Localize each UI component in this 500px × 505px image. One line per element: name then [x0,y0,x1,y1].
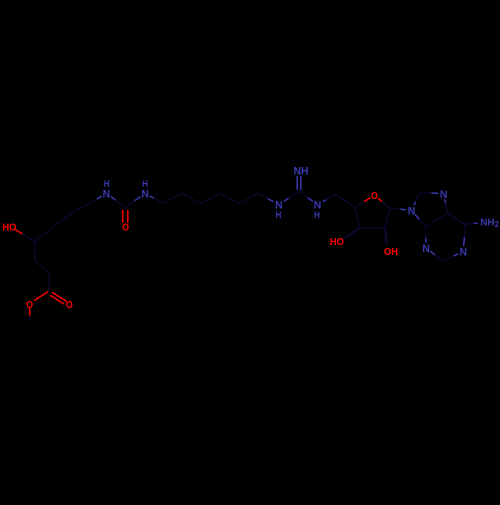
atom N1' urea label [103,188,111,200]
bond O(H)-C7 hydroxyl [15,230,23,235]
double bond C=O ester [53,293,67,302]
bond N-C guanidine [284,198,289,201]
atom O urea carbonyl label [122,222,129,234]
svg-text:N: N [141,188,149,200]
atom O ester carbonyl label [66,299,73,311]
atom N3 adenine label [422,243,430,255]
bond N2'-CH2 a [150,196,154,198]
svg-text:O: O [371,190,378,202]
bond C4-N1' urea [89,199,98,204]
atom 3'-OH label HO [330,236,344,248]
bond CH2-N guanidine left [258,194,268,200]
svg-text:O: O [66,299,73,311]
bond C-N guanidine right [299,192,308,199]
bond C6-N1 [464,224,465,238]
atom =NH guanidine label [294,165,309,177]
svg-text:N: N [103,188,111,200]
bond O-CH3 methyl [29,308,31,316]
bond N7-C5 [444,200,447,204]
atom N guanidine right label [314,199,322,211]
double bond C=O urea [122,211,124,223]
bond C5'-C4' [336,195,355,208]
bond chain b [163,194,182,204]
atom O hydroxyl label HO [2,222,16,234]
atom N7 adenine label [440,189,448,201]
bond C-N2' urea [125,200,135,207]
bond C9-C10 ester [48,273,50,292]
bond chain c [182,194,201,204]
bond N9-C8 [414,201,416,205]
atom N guanidine left label [275,199,283,211]
bond C10-O ester single [35,292,48,301]
atom H on guanidine left N [275,210,281,221]
svg-text:H: H [314,210,320,221]
bond C4'-C3' [355,208,360,229]
bond C2'-OH wedge [385,228,387,244]
bond C3'-OH wedge [346,228,360,237]
bond C5-C6 [448,213,466,224]
svg-text:N: N [408,205,416,217]
svg-text:H: H [275,210,281,221]
bond C4'-O4' [355,201,365,207]
atom O4' ribose ring label [371,190,378,202]
bond chain e [220,194,239,204]
double bond C=NH guanidine [296,177,298,190]
bond N3-C4 [425,238,427,243]
svg-text:N: N [440,189,448,201]
bond C6-NH2 [465,223,474,224]
svg-text:HO: HO [2,222,16,234]
bond C8-C9 [35,262,49,273]
bond C8-N7 [420,191,432,194]
bond C1'-N9 [390,208,401,211]
svg-text:N: N [460,246,468,258]
bond C5-C4 [426,213,448,227]
bond C2'-C1' [385,209,390,229]
svg-text:O: O [122,222,129,234]
atom N9 adenine label [408,205,416,217]
svg-text:O: O [26,299,33,311]
atom N1 adenine label [460,246,468,258]
svg-text:N: N [422,243,430,255]
bond C4-N9 [419,219,426,227]
bond C5-C4 [71,204,89,214]
bond C7-C6 [35,227,53,242]
svg-text:NH2: NH2 [480,217,499,229]
bond O4'-C1' [379,199,383,202]
bond C7-C8 [34,242,36,262]
svg-text:OH: OH [384,246,398,258]
atom 2'-OH label OH [384,246,398,258]
bond N-C5' [323,200,327,202]
svg-text:NH: NH [294,165,309,177]
bond N1-C2 [453,254,458,256]
bond N1'-C urea [111,197,116,201]
bond C2-N3 [435,255,444,262]
atom O ester single label [26,299,33,311]
bond chain d [201,194,220,204]
atom H on urea N2' [142,179,148,190]
svg-text:HO: HO [330,236,344,248]
atom N2' urea label [141,188,149,200]
bond chain f [239,194,258,204]
atom H on guanidine right N [314,210,320,221]
bond C6-C5 [53,214,71,228]
atom H on urea N1' [104,179,110,190]
bond C3'-C2' [360,227,385,229]
atom NH2 amino label [480,217,499,229]
